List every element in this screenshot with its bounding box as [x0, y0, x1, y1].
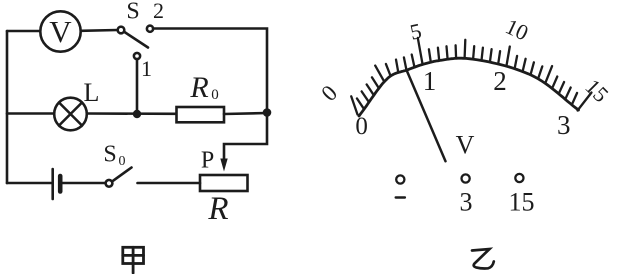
node right rail junction: [263, 108, 272, 117]
switch S contact 2: [147, 26, 153, 32]
svg-text:0: 0: [211, 87, 219, 103]
meter needle: [406, 70, 445, 162]
svg-text:3: 3: [557, 110, 571, 140]
rheostat R: [200, 175, 248, 191]
meter scale arc: [359, 58, 579, 116]
svg-text:V: V: [49, 14, 72, 49]
terminal minus: [396, 175, 404, 183]
switch S0 blade: [112, 168, 131, 182]
meter scale ticks: [351, 38, 591, 115]
wire voltmeter to switch S: [81, 29, 118, 32]
wire bottom left: [7, 182, 51, 185]
wire left rail: [6, 31, 9, 183]
resistor R0: [177, 107, 225, 122]
switch S0 pivot: [106, 180, 113, 187]
svg-text:0: 0: [316, 80, 342, 106]
label jia (甲): [123, 247, 144, 273]
wire contact 1 down to node: [136, 59, 139, 112]
wire lamp to resistor R0: [87, 112, 176, 115]
switch S pivot: [118, 27, 125, 34]
svg-text:15: 15: [509, 188, 535, 217]
node junction below contact 1: [133, 110, 141, 118]
label yi (乙): [472, 249, 494, 268]
terminal 3: [462, 174, 470, 182]
voltmeter V: [40, 11, 80, 51]
battery cell: [53, 169, 61, 199]
svg-text:1: 1: [423, 66, 437, 96]
svg-text:0: 0: [355, 113, 368, 140]
svg-text:P: P: [201, 148, 214, 174]
label R0: [189, 71, 218, 104]
wire right rail down to slider arm: [224, 113, 267, 160]
wire contact 2 to top right corner: [153, 29, 267, 111]
switch S blade: [125, 32, 149, 48]
wire battery to switch S0: [63, 182, 106, 185]
svg-text:R: R: [207, 191, 228, 227]
svg-text:V: V: [456, 131, 475, 160]
svg-text:S: S: [126, 0, 139, 25]
terminal 15: [515, 174, 523, 182]
switch S contact 1: [134, 53, 140, 59]
slider P arrow: [220, 159, 227, 172]
lamp L: [54, 98, 87, 131]
svg-text:2: 2: [493, 66, 507, 96]
label minus: [396, 196, 405, 198]
wire middle row left: [7, 112, 55, 115]
label S0: [103, 142, 125, 170]
svg-text:10: 10: [502, 14, 533, 46]
wire top left: [7, 30, 41, 33]
svg-text:1: 1: [141, 56, 152, 81]
svg-text:L: L: [84, 78, 100, 107]
wire R0 to right rail: [224, 113, 267, 114]
svg-text:3: 3: [460, 188, 473, 217]
svg-text:5: 5: [408, 18, 424, 45]
svg-text:2: 2: [153, 0, 164, 23]
svg-text:R: R: [189, 71, 208, 104]
svg-text:S: S: [103, 142, 116, 168]
svg-text:0: 0: [119, 154, 126, 169]
wire S0 to rheostat: [138, 182, 201, 185]
